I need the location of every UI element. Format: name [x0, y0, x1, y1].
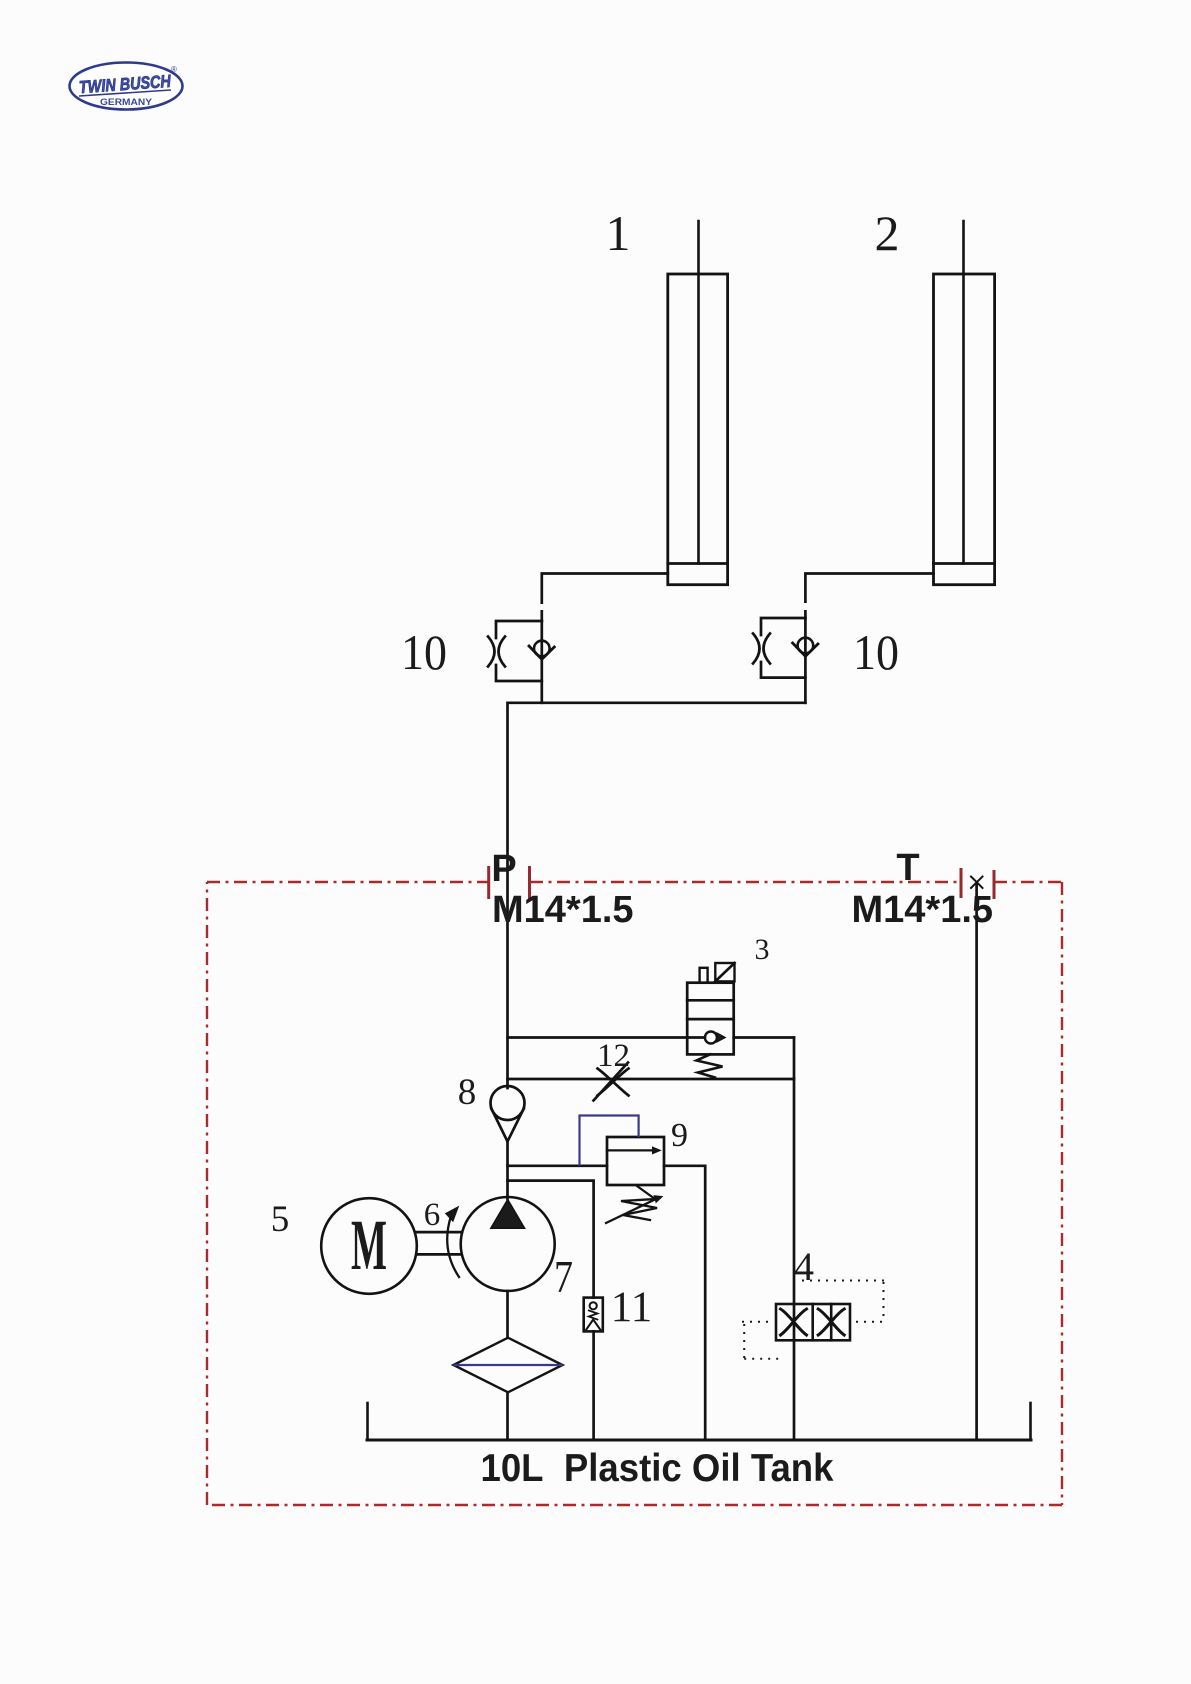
svg-text:10: 10 — [401, 624, 447, 680]
svg-text:2: 2 — [875, 205, 900, 261]
svg-text:4: 4 — [794, 1244, 814, 1289]
svg-text:®: ® — [171, 65, 177, 74]
svg-text:P: P — [491, 848, 516, 890]
svg-text:1: 1 — [606, 205, 631, 261]
svg-text:10: 10 — [853, 624, 899, 680]
svg-text:M14*1.5: M14*1.5 — [492, 889, 634, 931]
svg-text:M: M — [351, 1205, 387, 1285]
svg-text:M14*1.5: M14*1.5 — [852, 889, 994, 931]
svg-text:9: 9 — [671, 1117, 688, 1154]
svg-text:11: 11 — [611, 1284, 652, 1331]
svg-text:8: 8 — [458, 1072, 477, 1113]
svg-text:12: 12 — [597, 1038, 630, 1074]
svg-text:3: 3 — [755, 933, 770, 966]
svg-text:10L Plastic Oil Tank: 10L Plastic Oil Tank — [481, 1447, 834, 1490]
svg-text:7: 7 — [554, 1251, 573, 1302]
svg-text:5: 5 — [271, 1199, 290, 1240]
svg-text:6: 6 — [424, 1197, 441, 1233]
svg-text:GERMANY: GERMANY — [100, 97, 153, 108]
svg-text:T: T — [896, 847, 919, 889]
